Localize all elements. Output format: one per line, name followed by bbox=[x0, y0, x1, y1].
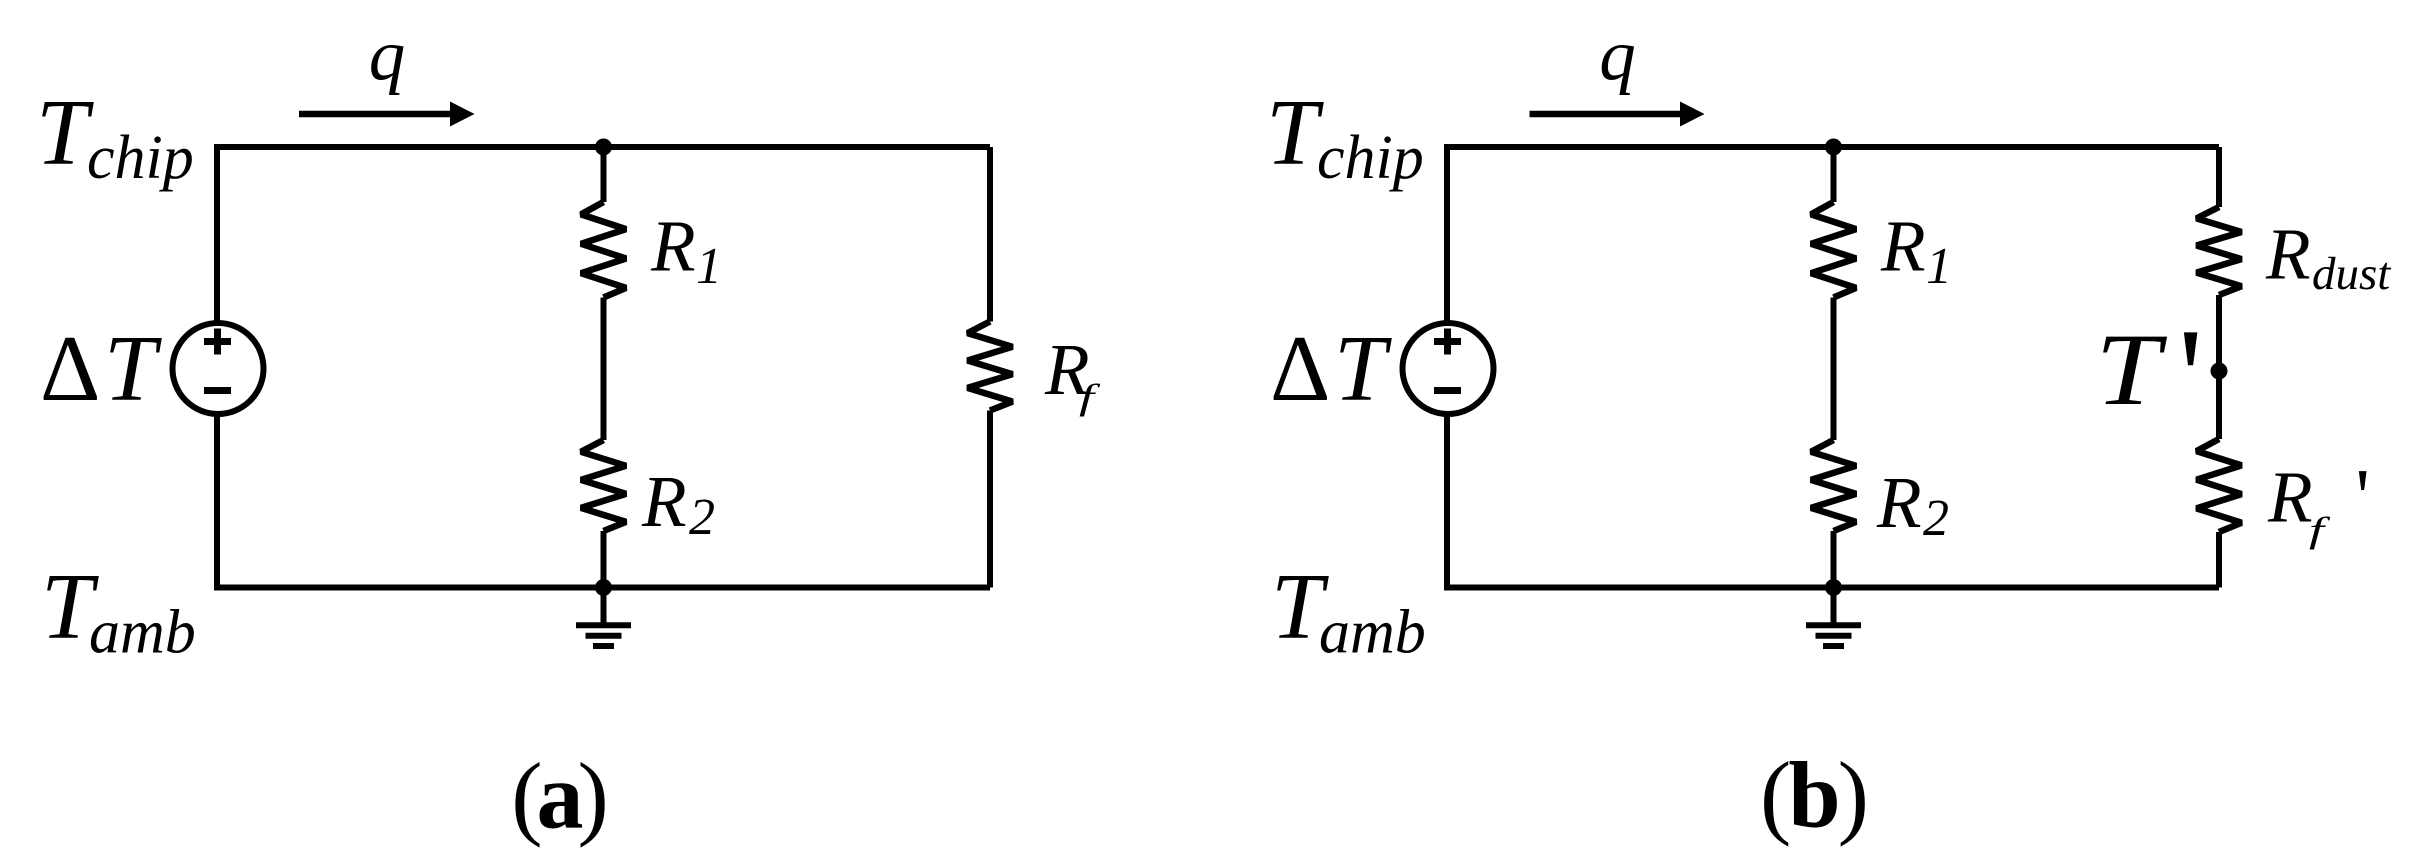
value label R2 (a) bbox=[641, 461, 715, 546]
resistor R2 (a) bbox=[581, 440, 626, 531]
wire: right branch lower lead a bbox=[987, 411, 993, 588]
svg-text:T: T bbox=[1266, 81, 1324, 185]
wire: right branch lower lead b bbox=[2216, 532, 2222, 588]
wire: middle branch upper lead b bbox=[1831, 147, 1837, 202]
source plus sign bbox=[204, 329, 231, 355]
node label Tchip (a) bbox=[36, 81, 194, 192]
resistor Rdust (b) bbox=[2197, 207, 2242, 295]
svg-text:T: T bbox=[104, 317, 162, 421]
svg-text:Δ: Δ bbox=[1270, 317, 1330, 421]
heat flow arrow q (b) bbox=[1530, 102, 1705, 127]
svg-text:R: R bbox=[1876, 462, 1922, 543]
ground symbol a bbox=[576, 588, 631, 647]
svg-text:amb: amb bbox=[89, 599, 196, 667]
svg-text:2: 2 bbox=[1923, 490, 1949, 547]
wire: bottom rail circuit b bbox=[1447, 585, 2219, 591]
value label R1 (b) bbox=[1880, 206, 1952, 296]
svg-text:T: T bbox=[2096, 312, 2168, 426]
wire: middle branch mid lead a bbox=[601, 298, 607, 441]
wire: right branch upper lead a bbox=[987, 147, 993, 322]
label q (a) bbox=[369, 15, 406, 96]
node label Tamb (b) bbox=[1271, 555, 1426, 667]
svg-text:q: q bbox=[1599, 15, 1636, 96]
svg-text:R: R bbox=[650, 206, 696, 287]
node label Tchip (b) bbox=[1266, 81, 1424, 192]
svg-text:1: 1 bbox=[1926, 238, 1952, 295]
source ΔT circle U-b bbox=[1403, 323, 1494, 414]
svg-text:1: 1 bbox=[696, 238, 722, 295]
source minus sign bbox=[204, 387, 231, 394]
caption (a) bbox=[511, 745, 605, 849]
node ground junction dot b bbox=[1825, 579, 1842, 596]
resistor R1 (b) bbox=[1811, 202, 1856, 298]
wire: left rail upper circuit a bbox=[214, 144, 220, 321]
svg-text:T: T bbox=[1334, 317, 1392, 421]
label q (b) bbox=[1599, 15, 1636, 96]
value label R2 (b) bbox=[1876, 462, 1949, 547]
svg-text:chip: chip bbox=[87, 124, 194, 192]
svg-text:T: T bbox=[36, 81, 94, 185]
wire: right branch mid lead b (node T') bbox=[2216, 295, 2222, 439]
node label T' (b) bbox=[2096, 300, 2204, 455]
node T' dot bbox=[2211, 363, 2228, 380]
source plus sign b bbox=[1434, 329, 1461, 355]
value label Rf' (b) bbox=[2267, 454, 2370, 550]
value label Rf (a) bbox=[1044, 329, 1101, 417]
resistor Rf (a) bbox=[968, 322, 1013, 411]
svg-text:Δ: Δ bbox=[40, 317, 100, 421]
svg-text:': ' bbox=[2178, 300, 2203, 455]
resistor R2 (b) bbox=[1811, 440, 1856, 531]
source minus sign b bbox=[1434, 387, 1461, 394]
wire: top rail circuit b bbox=[1447, 144, 2219, 150]
ground symbol b bbox=[1806, 588, 1861, 647]
wire: left rail lower circuit b bbox=[1444, 416, 1450, 591]
svg-text:R: R bbox=[1880, 206, 1926, 287]
resistor R1 (a) bbox=[581, 202, 626, 298]
svg-text:amb: amb bbox=[1319, 599, 1426, 667]
caption (b) bbox=[1760, 744, 1866, 848]
node Tchip junction dot a bbox=[595, 139, 612, 156]
svg-text:(a): (a) bbox=[511, 745, 605, 849]
svg-text:2: 2 bbox=[689, 489, 715, 546]
svg-text:f: f bbox=[1079, 377, 1101, 417]
svg-text:f: f bbox=[2309, 510, 2331, 550]
wire: left rail upper circuit b bbox=[1444, 144, 1450, 321]
value label Rdust (b) bbox=[2265, 214, 2391, 301]
wire: middle branch lower lead a bbox=[601, 531, 607, 588]
svg-text:dust: dust bbox=[2312, 248, 2391, 300]
svg-text:chip: chip bbox=[1317, 124, 1424, 192]
svg-text:(b): (b) bbox=[1760, 744, 1866, 848]
wire: middle branch upper lead a bbox=[601, 147, 607, 202]
wire: top rail circuit a bbox=[217, 144, 990, 150]
label ΔT (b) bbox=[1270, 317, 1392, 421]
wire: middle branch lower lead b bbox=[1831, 531, 1837, 588]
node label Tamb (a) bbox=[41, 555, 196, 667]
resistor Rf' (b) bbox=[2197, 439, 2242, 532]
value label R1 (a) bbox=[650, 206, 722, 296]
label ΔT (a) bbox=[40, 317, 162, 421]
svg-text:R: R bbox=[2267, 457, 2313, 538]
svg-text:': ' bbox=[2356, 454, 2370, 542]
wire: right branch upper lead b bbox=[2216, 147, 2222, 207]
wire: bottom rail circuit a bbox=[217, 585, 990, 591]
svg-text:q: q bbox=[369, 15, 406, 96]
svg-text:R: R bbox=[2265, 214, 2311, 295]
node ground junction dot a bbox=[595, 579, 612, 596]
svg-text:R: R bbox=[641, 461, 687, 542]
wire: left rail lower circuit a bbox=[214, 416, 220, 591]
node Tchip junction dot b bbox=[1825, 139, 1842, 156]
source ΔT circle U-a bbox=[173, 323, 264, 414]
heat flow arrow q (a) bbox=[299, 102, 475, 127]
wire: middle branch mid lead b bbox=[1831, 298, 1837, 441]
